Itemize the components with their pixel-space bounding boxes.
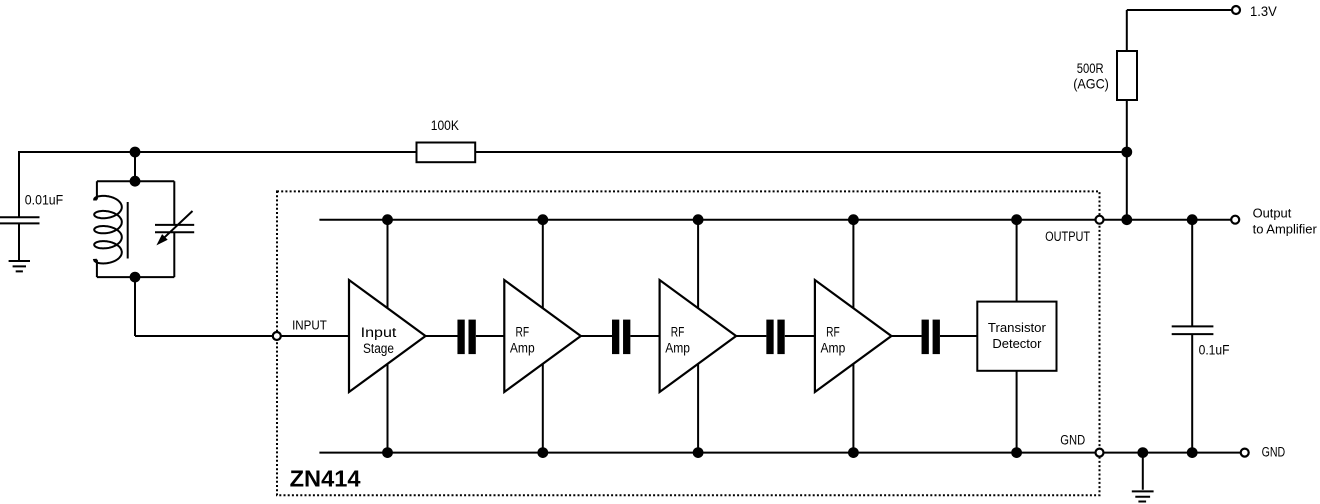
svg-text:GND: GND [1262,445,1286,460]
svg-text:Amp: Amp [665,340,690,355]
svg-text:Amp: Amp [510,340,535,355]
svg-text:100K: 100K [431,117,460,133]
svg-text:RF: RF [826,324,840,339]
svg-text:1.3V: 1.3V [1250,3,1277,19]
svg-text:0.01uF: 0.01uF [25,191,63,207]
svg-text:(AGC): (AGC) [1073,76,1109,92]
svg-text:INPUT: INPUT [292,318,327,333]
svg-text:Detector: Detector [992,336,1042,351]
svg-text:Output: Output [1253,206,1292,221]
svg-text:0.1uF: 0.1uF [1199,343,1230,358]
svg-text:OUTPUT: OUTPUT [1045,229,1090,244]
svg-text:Transistor: Transistor [988,320,1047,335]
svg-text:Input: Input [361,325,397,340]
svg-text:Stage: Stage [363,341,394,356]
svg-text:to Amplifier: to Amplifier [1253,222,1318,237]
svg-text:GND: GND [1060,433,1085,448]
svg-text:500R: 500R [1077,60,1104,76]
svg-text:Amp: Amp [821,340,846,355]
svg-text:RF: RF [516,324,530,339]
svg-text:RF: RF [671,324,685,339]
svg-text:ZN414: ZN414 [290,465,361,491]
